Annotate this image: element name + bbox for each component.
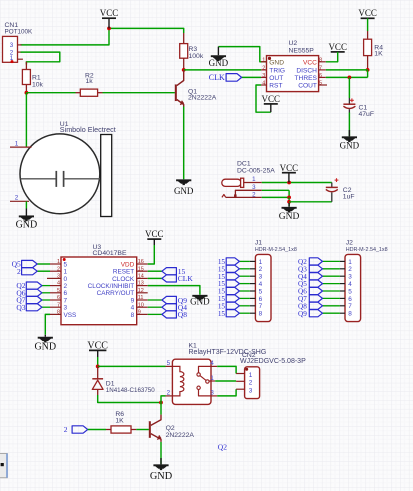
svg-text:1: 1 xyxy=(259,259,263,266)
svg-text:3: 3 xyxy=(57,274,60,280)
relay K1 switch contacts xyxy=(197,366,211,396)
svg-text:GND: GND xyxy=(209,58,229,68)
wire VCC to R4 xyxy=(367,18,369,31)
wire flag 2 to R6 xyxy=(88,429,106,431)
wire D1 anode down and right xyxy=(98,395,161,403)
pin 5 of K1 xyxy=(166,365,173,367)
net flag Q3 xyxy=(309,265,322,272)
pin 6 of J2 xyxy=(340,297,345,299)
svg-text:5: 5 xyxy=(259,288,263,295)
pin 4 RST of U2 xyxy=(261,84,267,86)
ground under U1 xyxy=(25,209,27,216)
pin 1 of J1 xyxy=(250,260,256,262)
wire U3 pin2 flag xyxy=(37,270,50,272)
pin 3 of K1 xyxy=(211,395,217,397)
wire ground rail down xyxy=(288,197,290,206)
wire VCC down to CN1 pin3 xyxy=(21,28,110,45)
svg-text:14: 14 xyxy=(138,274,144,280)
wire R1 junction to R2 xyxy=(26,92,75,94)
svg-text:VCC: VCC xyxy=(303,59,317,66)
transistor Q2 2N2222A xyxy=(149,415,161,442)
svg-text:2N2222A: 2N2222A xyxy=(166,432,195,439)
svg-text:VCC: VCC xyxy=(145,229,164,239)
pin 5 of U3 xyxy=(50,292,61,294)
svg-text:Q9: Q9 xyxy=(298,310,307,318)
net flag Q8 xyxy=(162,311,177,318)
svg-text:3: 3 xyxy=(10,42,14,49)
wire THRES rail xyxy=(326,76,368,78)
svg-text:GND: GND xyxy=(269,59,284,66)
net flag 15 xyxy=(226,258,239,265)
svg-text:1uF: 1uF xyxy=(343,194,355,201)
resistor R1 10k xyxy=(25,62,27,70)
net flag Q6 xyxy=(26,289,42,296)
wire pin3 down to pin2 net xyxy=(288,190,290,197)
svg-text:3: 3 xyxy=(210,389,214,396)
op-amp U2 NE555P timer xyxy=(267,56,319,92)
wire U2 DISCH to R4 bottom xyxy=(326,69,368,71)
wire J1 pin7 xyxy=(239,305,249,307)
net flag Q6 xyxy=(309,287,322,294)
svg-text:15: 15 xyxy=(218,310,226,318)
relay K1 coil xyxy=(172,366,184,396)
pin 7 of J2 xyxy=(340,305,345,307)
svg-text:OUT: OUT xyxy=(269,75,283,82)
pin 7 DISCH of U2 xyxy=(319,69,326,71)
svg-text:Q3: Q3 xyxy=(16,303,25,312)
svg-text:VCC: VCC xyxy=(358,8,377,18)
pin 2 of U3 xyxy=(50,270,61,272)
net flag Q9 xyxy=(162,296,177,303)
connector CN1 POT100K xyxy=(3,36,18,62)
svg-text:8: 8 xyxy=(259,311,263,318)
wire J2 pin6 xyxy=(323,297,340,299)
svg-text:1: 1 xyxy=(249,372,253,379)
svg-text:3: 3 xyxy=(252,184,256,191)
connector DC1 DC-005-25A xyxy=(222,178,262,197)
net flag Q4 xyxy=(309,273,322,280)
wire J1 pin2 xyxy=(239,268,249,270)
net flag Q5 xyxy=(309,280,322,287)
svg-text:GND: GND xyxy=(279,212,300,222)
svg-text:7: 7 xyxy=(319,65,322,71)
wire U3 pin5 flag xyxy=(42,292,50,294)
pin 3 of CN2 xyxy=(236,388,245,390)
resistor R3 100k xyxy=(183,33,185,44)
svg-text:1k: 1k xyxy=(86,78,94,85)
pin 1 of K1 xyxy=(209,380,215,382)
wire K1 pin2 to Q2 collector xyxy=(161,396,166,415)
pin 4 of K1 xyxy=(211,365,217,367)
svg-text:1: 1 xyxy=(252,176,256,183)
svg-text:TRIG: TRIG xyxy=(269,68,285,75)
net flag Q3 xyxy=(26,304,42,311)
svg-text:4: 4 xyxy=(57,281,60,287)
wire R6 to Q2 base xyxy=(136,429,149,431)
pin 5 of J2 xyxy=(340,290,345,292)
pin 3 of CN1 xyxy=(18,44,22,46)
svg-text:7: 7 xyxy=(259,303,263,310)
svg-text:CLOCK/INHIBIT: CLOCK/INHIBIT xyxy=(88,283,135,290)
svg-text:GND: GND xyxy=(16,219,38,230)
ground under Q1 xyxy=(176,179,191,181)
wire R1 junction down to U1 pin1 xyxy=(25,93,27,147)
connector J2 HDR-M-2.54_1x8 xyxy=(345,254,361,321)
pin 7 of J1 xyxy=(250,305,256,307)
capacitor C2 1uF xyxy=(326,178,339,202)
svg-text:2: 2 xyxy=(259,266,263,273)
svg-text:6: 6 xyxy=(319,73,322,79)
svg-text:4: 4 xyxy=(262,81,265,87)
wire THRES junction down to C1 xyxy=(348,77,350,98)
net flag Q2 xyxy=(26,282,42,289)
svg-text:1: 1 xyxy=(262,57,265,63)
net flag 15 xyxy=(226,265,239,272)
pin 8 of J2 xyxy=(340,312,345,314)
node CN1 anchor xyxy=(11,60,14,63)
wire U3 pin14 to flag CLK xyxy=(148,277,162,279)
pin 11 of U3 xyxy=(137,299,148,301)
pin 1 of CN1 xyxy=(18,58,23,60)
svg-text:8: 8 xyxy=(319,57,322,63)
svg-text:2: 2 xyxy=(249,380,253,387)
node VCC junction xyxy=(107,27,111,31)
wire K1 pin3 to CN2 pin3 xyxy=(217,389,236,396)
transistor Q1 2N2222A xyxy=(175,70,184,107)
net flag 15 xyxy=(226,302,239,309)
pin 2 of U1 xyxy=(10,200,29,202)
pin 8 of U3 xyxy=(50,313,61,315)
node D1 anode junction xyxy=(159,401,163,405)
svg-text:CLK: CLK xyxy=(209,73,225,82)
node U3 anchor xyxy=(63,258,66,261)
svg-text:1: 1 xyxy=(210,375,214,382)
node R1 bottom junction xyxy=(25,91,29,95)
wire R4 junction down to THRES rail xyxy=(367,70,369,78)
microphone U1 Simbolo Electrect xyxy=(20,134,112,217)
node Q1 collector junction xyxy=(182,68,186,72)
svg-text:VSS: VSS xyxy=(64,312,77,319)
svg-text:6: 6 xyxy=(348,296,352,303)
diode D1 1N4148 xyxy=(92,366,103,395)
svg-text:WJ2EDGVC-5.08-3P: WJ2EDGVC-5.08-3P xyxy=(240,358,306,365)
svg-text:VCC: VCC xyxy=(328,42,347,52)
svg-text:10k: 10k xyxy=(32,81,44,88)
svg-text:2: 2 xyxy=(64,425,68,434)
capacitor C1 47uF xyxy=(343,98,355,113)
svg-text:2: 2 xyxy=(167,389,171,396)
wire J1 pin5 xyxy=(239,290,249,292)
wire VCC top rail to R3 xyxy=(109,28,184,33)
wire U3 pin13 to ground xyxy=(148,286,200,295)
svg-text:3: 3 xyxy=(259,274,263,281)
connector J1 HDR-M-2.54_1x8 xyxy=(255,254,271,321)
wire J2 pin3 xyxy=(323,275,340,277)
pin 9 of U3 xyxy=(137,313,148,315)
svg-text:1N4148-C163750: 1N4148-C163750 xyxy=(106,387,155,394)
svg-text:16: 16 xyxy=(138,259,144,265)
svg-text:2N2222A: 2N2222A xyxy=(188,95,217,102)
svg-text:Q8: Q8 xyxy=(178,310,187,319)
wire U3 to flag Q8 xyxy=(148,313,162,315)
wire J1 pin3 xyxy=(239,275,249,277)
pin 7 of U3 xyxy=(50,306,61,308)
svg-text:1: 1 xyxy=(64,269,68,276)
wire DC1 pin2 to ground rail xyxy=(262,196,289,198)
wire VCC down to junction xyxy=(97,357,99,366)
svg-text:2: 2 xyxy=(252,191,256,198)
svg-text:9: 9 xyxy=(138,310,141,316)
pin 2 of J2 xyxy=(340,268,345,270)
svg-text:2: 2 xyxy=(15,195,19,202)
pin 4 of U3 xyxy=(50,285,61,287)
pin 2 TRIG of U2 xyxy=(261,69,267,71)
svg-text:R3: R3 xyxy=(189,46,198,53)
pin 1 of CN2 xyxy=(236,373,245,375)
net flag Q9 xyxy=(309,310,322,317)
wire J2 pin8 xyxy=(323,312,340,314)
wire U3 pin1 flag xyxy=(37,263,50,265)
svg-text:6: 6 xyxy=(64,290,68,297)
svg-text:4: 4 xyxy=(348,281,352,288)
wire U3 pin15 to flag 15 xyxy=(148,270,162,272)
svg-text:NE555P: NE555P xyxy=(289,47,315,54)
wire U3 to flag Q9 xyxy=(148,299,162,301)
svg-text:2: 2 xyxy=(262,65,265,71)
net flag 15 xyxy=(226,295,239,302)
svg-text:6: 6 xyxy=(57,295,60,301)
svg-text:RST: RST xyxy=(269,83,282,90)
wire U3 VSS to ground xyxy=(45,314,50,334)
resistor R4 1K xyxy=(367,31,369,39)
net flag 15 xyxy=(226,287,239,294)
pin 3 of J1 xyxy=(250,275,256,277)
node VCC relay junction xyxy=(96,365,100,369)
svg-text:1K: 1K xyxy=(115,418,124,425)
svg-text:GND: GND xyxy=(174,186,194,196)
node DC1 pin2 junction xyxy=(287,196,291,200)
wire U1 pin2 to ground xyxy=(25,201,27,208)
pin 14 of U3 xyxy=(137,277,148,279)
wire DC1 pin1 to VCC and C2 xyxy=(262,182,332,184)
wire J1 pin4 xyxy=(239,283,249,285)
svg-text:7: 7 xyxy=(57,302,60,308)
svg-text:CARRY/OUT: CARRY/OUT xyxy=(97,290,135,297)
ground under U3 VSS xyxy=(44,335,46,337)
svg-text:5: 5 xyxy=(319,81,322,87)
wire J2 pin4 xyxy=(323,283,340,285)
svg-text:15: 15 xyxy=(138,266,144,272)
svg-text:HDR-M-2.54_1x8: HDR-M-2.54_1x8 xyxy=(346,247,388,253)
wire J2 pin5 xyxy=(323,290,340,292)
pin 12 of U3 xyxy=(137,292,148,294)
wire J1 pin8 xyxy=(239,312,249,314)
svg-text:CLK: CLK xyxy=(178,274,194,283)
svg-text:HDR-M-2.54_1x8: HDR-M-2.54_1x8 xyxy=(255,247,297,253)
wire VCC junction to relay coil pin5 xyxy=(98,365,166,367)
net flag Q5 xyxy=(22,260,38,267)
pin 1 of DC1 xyxy=(244,182,262,184)
pin 6 THRES of U2 xyxy=(319,76,326,78)
wire J1 pin6 xyxy=(239,297,249,299)
pin 8 VCC of U2 xyxy=(319,61,326,63)
svg-text:VDD: VDD xyxy=(121,261,135,268)
svg-text:8: 8 xyxy=(348,311,352,318)
net flag 2 at R6 xyxy=(72,426,88,433)
wire J2 pin7 xyxy=(323,305,340,307)
wire U3 to flag Q4 xyxy=(148,306,162,308)
node DC1 VCC junction xyxy=(287,181,291,185)
svg-text:2: 2 xyxy=(57,266,60,272)
svg-text:100k: 100k xyxy=(189,53,204,60)
svg-text:2: 2 xyxy=(64,283,68,290)
pin 3 of J2 xyxy=(340,275,345,277)
resistor R6 1K xyxy=(106,429,111,431)
pin 15 of U3 xyxy=(137,270,148,272)
svg-text:7: 7 xyxy=(348,303,352,310)
svg-text:13: 13 xyxy=(138,281,144,287)
svg-text:VCC: VCC xyxy=(100,8,119,18)
wire DC1 pin3 over xyxy=(262,189,289,191)
net flag Q8 xyxy=(309,302,322,309)
svg-text:1: 1 xyxy=(348,259,352,266)
pin 5 COUT of U2 xyxy=(319,84,327,86)
net flag Q7 xyxy=(26,296,42,303)
svg-text:7: 7 xyxy=(64,297,68,304)
wire U2 pin1 to ground symbol xyxy=(218,47,266,62)
net flag Q4 xyxy=(162,304,177,311)
svg-text:11: 11 xyxy=(138,295,144,301)
svg-text:3: 3 xyxy=(348,274,352,281)
net flag 15 xyxy=(226,310,239,317)
svg-text:GND: GND xyxy=(190,297,210,307)
pin 5 of J1 xyxy=(250,290,256,292)
node C2 return junction xyxy=(287,200,291,204)
net flag 15 xyxy=(226,273,239,280)
pin 2 of CN1 xyxy=(18,51,22,53)
wire U3 pin7 flag xyxy=(42,306,50,308)
svg-text:RESET: RESET xyxy=(113,269,134,276)
svg-text:2: 2 xyxy=(348,266,352,273)
ground at U2 pin1 xyxy=(217,47,219,56)
ground under DC1 xyxy=(288,203,290,207)
pin 8 of J1 xyxy=(250,312,256,314)
wire C2 bottom to ground rail xyxy=(289,201,332,203)
svg-text:CLOCK: CLOCK xyxy=(112,276,135,283)
wire U3 pin4 flag xyxy=(42,285,50,287)
svg-text:Q2: Q2 xyxy=(218,442,227,451)
ground under Q2 xyxy=(160,458,162,464)
wire U2 pin8 to VCC xyxy=(326,52,338,62)
svg-text:3: 3 xyxy=(64,305,68,312)
pin 1 of J2 xyxy=(340,260,345,262)
op-amp U3 CD4017BE counter xyxy=(61,257,137,325)
svg-text:COUT: COUT xyxy=(298,83,317,90)
svg-text:VCC: VCC xyxy=(262,94,281,104)
pin 3 OUT of U2 xyxy=(261,76,267,78)
svg-text:8: 8 xyxy=(131,312,135,319)
svg-text:1K: 1K xyxy=(374,50,383,57)
net flag Q7 xyxy=(309,295,322,302)
net flag CLK at U2 OUT xyxy=(242,76,261,78)
node R4 bottom junction xyxy=(366,68,370,72)
node THRES junction xyxy=(348,76,352,80)
wire J2 pin1 xyxy=(323,260,340,262)
pin 1 of U3 xyxy=(50,263,61,265)
svg-text:10: 10 xyxy=(138,302,144,308)
svg-text:9: 9 xyxy=(131,297,135,304)
pin 4 of J2 xyxy=(340,283,345,285)
pin 2 of CN2 xyxy=(236,380,245,382)
svg-text:5: 5 xyxy=(64,261,68,268)
svg-text:2: 2 xyxy=(17,267,21,276)
svg-text:5: 5 xyxy=(348,288,352,295)
svg-text:POT100K: POT100K xyxy=(5,29,33,36)
svg-text:R1: R1 xyxy=(32,74,41,81)
wire J1 pin1 xyxy=(239,260,249,262)
svg-text:THRES: THRES xyxy=(295,75,318,82)
svg-text:U2: U2 xyxy=(289,40,298,47)
svg-text:GND: GND xyxy=(340,141,360,151)
svg-text:5: 5 xyxy=(167,360,171,367)
svg-text:DC-005-25A: DC-005-25A xyxy=(237,168,275,175)
wire J2 pin2 xyxy=(323,268,340,270)
UI panel fragment bottom-left xyxy=(0,454,7,478)
svg-text:3: 3 xyxy=(262,73,265,79)
wire U2 RST to VCC below xyxy=(256,85,271,112)
ground at U3 pin13 xyxy=(192,295,207,297)
pin 13 of U3 xyxy=(137,285,148,287)
svg-text:CD4017BE: CD4017BE xyxy=(93,250,127,257)
svg-text:DISCH: DISCH xyxy=(296,68,317,75)
connector CN2 WJ2EDGVC-5.08-3P xyxy=(245,367,260,399)
node U2 anchor xyxy=(268,57,271,60)
svg-text:VCC: VCC xyxy=(280,163,299,173)
pin 4 of J1 xyxy=(250,283,256,285)
net flag Q2 xyxy=(309,258,322,265)
pin 3 of U3 xyxy=(47,277,61,279)
pin 2 of J1 xyxy=(250,268,256,270)
wire C1 to ground xyxy=(348,113,350,137)
pin 16 of U3 xyxy=(137,263,148,265)
svg-text:J2: J2 xyxy=(346,240,353,247)
pin 6 of J1 xyxy=(250,297,256,299)
svg-text:4: 4 xyxy=(259,281,263,288)
svg-text:6: 6 xyxy=(259,296,263,303)
svg-text:1: 1 xyxy=(57,259,60,265)
svg-text:4: 4 xyxy=(210,360,214,367)
svg-text:8: 8 xyxy=(57,310,60,316)
wire Q2 emitter to ground xyxy=(160,442,162,464)
net flag 15 xyxy=(162,268,177,275)
resistor R2 1k xyxy=(76,92,81,94)
ground under C1 xyxy=(348,130,350,136)
pin 1 GND of U2 xyxy=(261,61,267,63)
wire K1 pin1 to CN2 pin2 xyxy=(215,380,236,382)
wire R2 to Q1 base xyxy=(103,92,175,94)
wire K1 pin4 to CN2 pin1 xyxy=(217,366,236,373)
wire CN1 pin2 loop to R1 xyxy=(21,52,60,64)
svg-text:J1: J1 xyxy=(255,240,262,247)
svg-text:Simbolo Electrect: Simbolo Electrect xyxy=(60,125,116,134)
pin 2 of K1 xyxy=(166,395,173,397)
net flag 2 at U3 pin2 xyxy=(22,268,38,275)
net flag 15 xyxy=(226,280,239,287)
pin 10 of U3 xyxy=(137,306,148,308)
svg-text:3: 3 xyxy=(249,387,253,394)
node CN2 anchor xyxy=(245,368,248,371)
relay K1 RelayHT3F-12VDC-SHG xyxy=(172,359,211,404)
